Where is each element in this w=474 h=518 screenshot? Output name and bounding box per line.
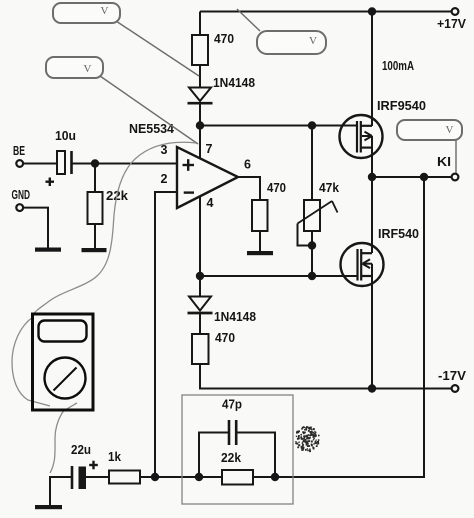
svg-text:V: V — [309, 35, 317, 47]
wire GND terminal to ground — [23, 208, 48, 249]
multimeter probe lead left loop — [12, 317, 50, 406]
node feedback bottom junction — [151, 473, 159, 481]
multimeter probe lead upper — [33, 142, 196, 315]
svg-text:4: 4 — [207, 196, 214, 210]
svg-text:47p: 47p — [222, 398, 242, 412]
wire lower gate bias to Q2 — [200, 275, 357, 277]
multimeter body — [33, 314, 94, 410]
transistor Q2 IRF540 — [341, 227, 420, 286]
resistor R6 1k — [108, 450, 140, 484]
callout pointer B3 — [100, 76, 198, 144]
svg-text:7: 7 — [206, 142, 213, 156]
svg-text:NE5534: NE5534 — [129, 122, 174, 136]
callout pointer B4 — [455, 140, 457, 173]
svg-text:47k: 47k — [319, 181, 339, 195]
svg-text:22u: 22u — [71, 443, 91, 457]
pin number 3 — [161, 143, 168, 157]
svg-text:V: V — [84, 63, 92, 75]
wire R4 to ground — [259, 231, 261, 252]
svg-text:V: V — [101, 5, 109, 17]
pin number 7 — [206, 142, 213, 156]
wire 1k to C3 — [86, 476, 109, 478]
capacitor C2 47p — [222, 398, 242, 446]
wire Q2 drain from output — [371, 177, 373, 253]
diode D2 1N4148 (bottom) — [188, 297, 257, 325]
wire 47k top lead — [311, 126, 313, 201]
multimeter probe lead lower — [50, 403, 77, 473]
svg-text:1N4148: 1N4148 — [214, 310, 256, 324]
wire 47k bottom lead — [311, 231, 313, 276]
ground under R4 — [247, 251, 273, 255]
wire 47p branch — [199, 433, 275, 478]
callout bubble B4 — [397, 120, 462, 140]
svg-text:22k: 22k — [221, 451, 241, 465]
node junction upper bias — [196, 121, 204, 129]
node feedback junction — [420, 173, 428, 181]
wire R1 to D1 — [199, 65, 201, 88]
node 47p left junction — [195, 473, 203, 481]
callout bubble B3 — [46, 57, 103, 78]
wire BE to C1 — [23, 163, 57, 165]
svg-text:1N4148: 1N4148 — [213, 76, 255, 90]
svg-text:IRF9540: IRF9540 — [377, 99, 426, 113]
wire D2 to R2 — [199, 314, 201, 335]
wire junction to R3 — [94, 164, 96, 194]
wire Q1 source/substrate to output — [371, 136, 373, 177]
node wiper junction — [308, 241, 316, 249]
svg-text:2: 2 — [161, 172, 168, 186]
wire from rail down to R1 — [199, 12, 201, 37]
potentiometer P1 47k — [298, 181, 340, 231]
wire 47k wiper tie — [298, 224, 313, 246]
node input junction — [91, 159, 99, 167]
ground under C3 — [35, 505, 62, 509]
svg-text:V: V — [446, 124, 454, 136]
diode D1 1N4148 (top) — [188, 76, 256, 103]
pin number 6 — [244, 158, 251, 172]
pin number 2 — [161, 172, 168, 186]
wire R3 to ground — [94, 224, 96, 249]
transistor Q1 IRF9540 — [340, 99, 427, 158]
svg-text:BE: BE — [13, 144, 25, 158]
node KI output terminal — [437, 155, 458, 180]
node GND terminal — [12, 188, 31, 211]
wire D1 to op-amp pin 7 — [199, 104, 201, 160]
node BE input terminal — [13, 144, 25, 167]
wire C1 to op-amp pin 3 — [73, 163, 178, 165]
node 47k bottom junction — [308, 272, 316, 280]
noise splotch — [295, 426, 319, 452]
callout pointer B2 — [237, 9, 260, 31]
resistor R5 22k (feedback) — [221, 451, 253, 485]
resistor R1 470 (top bias) — [192, 32, 234, 65]
wire op-amp pin 2 feedback — [155, 192, 177, 477]
ground under GND terminal — [35, 248, 61, 252]
svg-text:470: 470 — [215, 331, 235, 345]
wire top +17V rail — [200, 11, 452, 13]
resistor R4 470 (output) — [252, 181, 286, 231]
node -17V terminal — [438, 369, 467, 392]
wire op-amp pin 4 down — [199, 196, 201, 297]
svg-text:GND: GND — [12, 188, 31, 202]
svg-text:10u: 10u — [55, 129, 76, 143]
wire C3 to ground — [50, 477, 71, 506]
svg-text:KI: KI — [437, 155, 451, 169]
node 47p right junction — [271, 473, 279, 481]
pin number 4 — [207, 196, 214, 210]
wire R2 to -17V rail — [200, 364, 452, 389]
callout bubble B1 — [53, 3, 120, 23]
svg-text:6: 6 — [244, 158, 251, 172]
callout bubble B2 — [257, 31, 326, 54]
wire bottom row left segment — [140, 476, 222, 478]
svg-text:1k: 1k — [108, 450, 121, 464]
ground under R3 — [82, 248, 107, 252]
node rail junction bottom — [368, 384, 376, 392]
svg-text:100mA: 100mA — [382, 59, 414, 73]
node +17V terminal — [437, 8, 467, 31]
capacitor C3 22u — [71, 443, 98, 489]
multimeter dial — [45, 358, 86, 399]
node junction lower bias — [196, 272, 204, 280]
wire feedback drop — [253, 177, 424, 477]
svg-text:-17V: -17V — [438, 369, 467, 383]
multimeter display — [39, 321, 87, 342]
wire Q2 source to -17V rail — [371, 264, 373, 389]
svg-text:470: 470 — [267, 181, 286, 195]
wire output node row — [372, 176, 452, 178]
wire op-amp output pin 6 — [238, 177, 260, 201]
resistor R3 22k (input) — [88, 189, 129, 224]
node junction 47k top — [308, 121, 316, 129]
label 100mA — [382, 59, 414, 73]
wire Q1 drain from +17V — [371, 12, 373, 127]
svg-text:+17V: +17V — [437, 17, 467, 31]
node rail junction — [368, 7, 376, 15]
callout pointer B1 — [116, 21, 199, 76]
svg-text:IRF540: IRF540 — [378, 227, 419, 241]
wire upper gate bias to Q1 — [200, 125, 357, 127]
op-amp U1 NE5534 — [129, 122, 238, 208]
resistor R2 470 (bottom bias) — [192, 331, 235, 364]
capacitor C1 10u — [46, 129, 77, 186]
selection box around feedback network — [182, 395, 293, 504]
node Q1-Q2 output junction — [368, 173, 376, 181]
svg-text:470: 470 — [214, 32, 234, 46]
